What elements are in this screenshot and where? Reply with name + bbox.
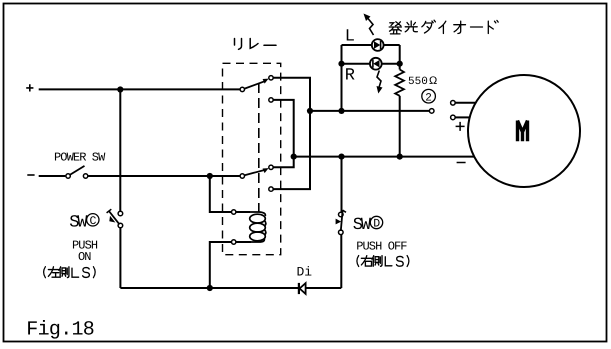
svg-text:Ω: Ω [429, 75, 437, 87]
connector pin motor plus upper [451, 101, 476, 106]
wire resistor top rail [399, 45, 401, 70]
label R [345, 67, 355, 86]
wire bottom rail right [306, 287, 342, 289]
wire plus branch down to SWC [119, 90, 121, 212]
node junction coil bottom on rail [207, 285, 213, 291]
svg-text:PUSH OFF: PUSH OFF [356, 240, 407, 254]
label 550ohm [408, 75, 437, 88]
svg-text:C: C [90, 215, 97, 228]
wire K1-NC to crossover [273, 100, 293, 167]
node junction R-row right [397, 61, 403, 67]
relay contact K2 blade [245, 168, 269, 175]
pin coil terminal top [232, 210, 236, 214]
svg-text:SW: SW [69, 213, 88, 232]
label motor plus [456, 122, 465, 131]
wire motor minus line [294, 156, 475, 158]
switch POWER SW [66, 166, 88, 178]
node junction coil branch [207, 173, 213, 179]
svg-text:R: R [345, 67, 355, 86]
wire L row [342, 44, 400, 46]
relay contact K1 blade [245, 79, 269, 89]
node junction motor-plus takeoff [307, 108, 313, 114]
svg-text:L: L [345, 27, 355, 46]
node plus-label [26, 84, 33, 91]
resistor 550ohm [395, 70, 404, 96]
svg-text:D: D [373, 218, 380, 231]
label PUSH ON [72, 239, 98, 265]
wire LED left rail [341, 45, 343, 111]
wire SWC lower [119, 228, 121, 288]
label L [345, 27, 355, 46]
wire resistor bottom rail [399, 96, 401, 157]
relay dashed box [223, 63, 281, 254]
connector pin feed [429, 109, 434, 114]
wire K1-NO to right crossover [273, 78, 310, 189]
label right LS [357, 256, 409, 267]
node junction R-row left [338, 61, 344, 67]
wire motor plus line [310, 110, 429, 112]
wire plus rail [39, 88, 240, 90]
relay contact K2 NC pin [269, 187, 273, 191]
pin coil terminal bottom [232, 240, 236, 244]
relay contact K2 NO pin [269, 165, 273, 169]
svg-text:550: 550 [408, 76, 428, 88]
svg-text:SW: SW [353, 216, 372, 235]
svg-text:Fig.18: Fig.18 [26, 318, 94, 341]
wire minus rail [88, 175, 240, 177]
LED R emission arrow [377, 71, 383, 94]
node minus-label [27, 174, 34, 176]
label 2-circled [422, 89, 436, 104]
node junction SWD branch [338, 154, 344, 160]
svg-text:Di: Di [297, 265, 313, 280]
LED L emission arrow [364, 14, 374, 36]
label SWD [353, 216, 383, 235]
motor M [468, 75, 580, 187]
LED L [372, 39, 384, 51]
wire minus lead-in [39, 175, 66, 177]
label Fig.18 [26, 318, 94, 341]
label left LS [44, 267, 96, 278]
label PUSH OFF [356, 240, 407, 254]
wire coil top branch [210, 176, 250, 212]
wire SWD lower [340, 235, 342, 288]
node junction motor-minus takeoff [291, 154, 297, 160]
LED R [370, 58, 382, 70]
relay contact K1 NC pin [269, 98, 273, 102]
label SWC [69, 213, 99, 232]
label relay (katakana riree) [235, 39, 277, 50]
switch SWD push-off [336, 210, 346, 234]
label POWER SW [54, 150, 106, 164]
relay contact K1 NO pin [269, 76, 273, 80]
relay contact K1 common pin [240, 87, 244, 91]
label Di [297, 265, 313, 280]
wire bottom rail left [120, 287, 299, 289]
wire R row [342, 63, 400, 65]
label hakkou-daiodo (LED) [389, 20, 498, 34]
label motor minus [457, 162, 466, 164]
relay coil [250, 212, 266, 242]
relay contact K2 common pin [240, 174, 244, 178]
node junction on plus rail [117, 86, 123, 92]
svg-text:POWER SW: POWER SW [54, 150, 106, 164]
node junction resistor to motor minus [397, 154, 403, 160]
relay mechanical linkage dashed line [258, 83, 260, 212]
svg-text:2: 2 [425, 92, 432, 104]
node junction LED rail to motor plus [338, 108, 344, 114]
connector pin motor plus lower [451, 115, 470, 120]
wire coil bottom branch [210, 242, 251, 288]
switch SWC push-on [107, 209, 123, 228]
diode Di [299, 283, 306, 294]
wire SWD upper [341, 157, 343, 213]
svg-text:ON: ON [78, 250, 91, 264]
